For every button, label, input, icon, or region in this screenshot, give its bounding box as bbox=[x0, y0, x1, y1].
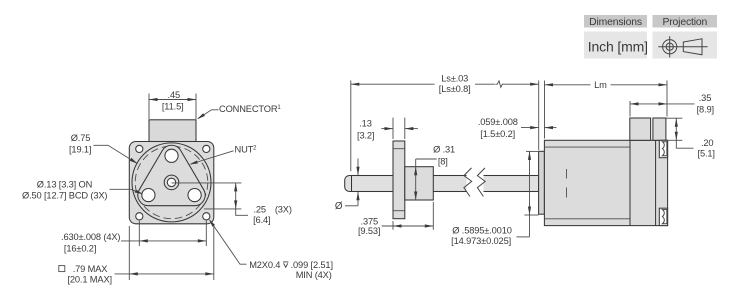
BCD hole bottom-right bbox=[188, 189, 201, 202]
svg-text:[6.4]: [6.4] bbox=[253, 215, 270, 225]
dimension .375 [9.53] nut length bbox=[358, 202, 433, 236]
table header cell Projection bbox=[653, 15, 718, 28]
motor front face square bbox=[129, 142, 214, 224]
label screw diameter with arrows bbox=[335, 159, 360, 213]
svg-text:[20.1 MAX]: [20.1 MAX] bbox=[67, 275, 112, 285]
svg-text:.35: .35 bbox=[699, 93, 711, 103]
table cell projection symbol bbox=[653, 32, 718, 59]
svg-text:.20: .20 bbox=[701, 138, 713, 148]
svg-text:(3X): (3X) bbox=[275, 204, 292, 214]
dimension Ls screw length bbox=[351, 73, 539, 171]
BCD hole bottom-left bbox=[142, 189, 155, 202]
svg-text:Ø.50 [12.7] BCD (3X): Ø.50 [12.7] BCD (3X) bbox=[22, 190, 107, 200]
svg-text:[9.53]: [9.53] bbox=[358, 226, 380, 236]
shaft break gap bbox=[467, 173, 484, 195]
break zigzag left bbox=[464, 168, 472, 197]
svg-text:.099 [2.51]: .099 [2.51] bbox=[291, 260, 333, 270]
svg-text:Projection: Projection bbox=[662, 17, 707, 28]
dimension diameter .31 [8] hub bbox=[414, 145, 455, 200]
center hub bbox=[164, 175, 179, 190]
svg-text:Ø.75: Ø.75 bbox=[71, 133, 91, 143]
corner hole top-left bbox=[136, 145, 143, 152]
dimension .35 [8.9] connector length bbox=[630, 93, 714, 116]
motor body (side view) bbox=[544, 140, 667, 225]
label diameter .75 [19.1] with leader bbox=[69, 133, 138, 164]
svg-text:Ø .31: Ø .31 bbox=[433, 145, 455, 155]
face bottom edge cover bbox=[136, 141, 207, 143]
svg-text:[Ls±0.8]: [Ls±0.8] bbox=[439, 84, 471, 94]
dimension diameter .5895 pilot boss bbox=[451, 151, 538, 246]
svg-text:[16±0.2]: [16±0.2] bbox=[64, 243, 96, 253]
BCD hole top bbox=[165, 149, 178, 162]
svg-text:.79 MAX: .79 MAX bbox=[73, 264, 108, 274]
dimension .13 [3.2] plate thickness bbox=[357, 118, 418, 141]
svg-text:[8]: [8] bbox=[438, 156, 448, 166]
svg-text:.45: .45 bbox=[168, 90, 180, 100]
corner hole bottom-left bbox=[136, 213, 143, 220]
rear connector block right bbox=[653, 118, 666, 140]
dimension .20 [5.1] connector height bbox=[667, 118, 715, 159]
svg-text:.13: .13 bbox=[359, 118, 371, 128]
nut flange plate (side view) bbox=[393, 141, 405, 219]
dimension .630 [16] hole spacing bbox=[61, 221, 206, 254]
svg-text:CONNECTOR1: CONNECTOR1 bbox=[219, 104, 281, 114]
label diameter .13 on .50 BCD with leader bbox=[22, 180, 143, 201]
dimension .25 [6.4] (3X) nut offset bbox=[172, 183, 292, 225]
retaining clip notch bottom bbox=[659, 208, 667, 225]
svg-text:.630±.008 (4X): .630±.008 (4X) bbox=[61, 232, 120, 242]
svg-text:[3.2]: [3.2] bbox=[357, 130, 374, 140]
dimension Lm motor length bbox=[545, 80, 668, 139]
dimension .45 [11.5] connector width bbox=[149, 90, 196, 119]
label NUT with leader bbox=[189, 145, 257, 165]
svg-text:[11.5]: [11.5] bbox=[162, 101, 184, 111]
connector block (front view) bbox=[149, 120, 196, 142]
corner hole top-right bbox=[203, 145, 210, 152]
svg-text:Dimensions: Dimensions bbox=[589, 17, 642, 28]
svg-text:.059±.008: .059±.008 bbox=[478, 117, 518, 127]
dimension square .79 MAX [20.1 MAX] bbox=[59, 226, 214, 285]
svg-text:[19.1]: [19.1] bbox=[69, 144, 91, 154]
nut plate trefoil bbox=[138, 145, 205, 205]
label CONNECTOR with leader bbox=[197, 104, 282, 119]
dimension .059 [1.5] boss projection bbox=[478, 117, 557, 139]
leadscrew rounded tip bbox=[345, 176, 352, 192]
table cell Inch [mm] bbox=[584, 32, 648, 59]
svg-text:[5.1]: [5.1] bbox=[698, 149, 715, 159]
svg-text:[1.5±0.2]: [1.5±0.2] bbox=[480, 129, 515, 139]
svg-text:[8.9]: [8.9] bbox=[697, 104, 714, 114]
svg-text:MIN (4X): MIN (4X) bbox=[296, 270, 332, 280]
svg-text:.25: .25 bbox=[253, 204, 265, 214]
svg-text:.375: .375 bbox=[361, 216, 379, 226]
svg-text:Ls±.03: Ls±.03 bbox=[441, 73, 468, 83]
table header cell Dimensions bbox=[584, 15, 647, 28]
rear connector block left bbox=[630, 118, 651, 140]
svg-text:[14.973±0.025]: [14.973±0.025] bbox=[451, 236, 511, 246]
svg-text:Inch [mm]: Inch [mm] bbox=[588, 39, 648, 55]
nut hub (side view) bbox=[405, 167, 434, 200]
svg-text:Ø.13 [3.3] ON: Ø.13 [3.3] ON bbox=[37, 180, 92, 190]
corner hole bottom-right bbox=[203, 213, 210, 220]
pilot boss (side view) bbox=[539, 151, 545, 214]
svg-text:Ø: Ø bbox=[335, 201, 343, 212]
svg-text:Lm: Lm bbox=[594, 80, 607, 90]
break zigzag right bbox=[477, 168, 485, 197]
svg-text:Ø .5895±.0010: Ø .5895±.0010 bbox=[452, 225, 512, 235]
label M2X0.4 thread with leader bbox=[209, 219, 333, 280]
leadscrew shaft bbox=[352, 176, 539, 192]
hidden circle dashed bbox=[135, 146, 208, 219]
svg-text:M2X0.4: M2X0.4 bbox=[249, 260, 280, 270]
svg-text:NUT2: NUT2 bbox=[235, 145, 258, 155]
pilot circle solid bbox=[132, 143, 211, 222]
retaining clip notch top bbox=[659, 140, 667, 157]
